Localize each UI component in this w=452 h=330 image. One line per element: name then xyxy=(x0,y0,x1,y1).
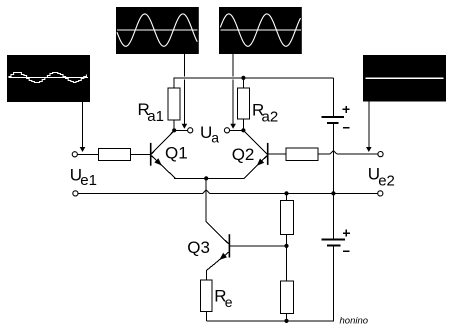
resistor R3 (divider top) xyxy=(281,201,294,235)
label Ra2 xyxy=(252,101,278,126)
label Ue1 xyxy=(70,165,97,189)
plus sign of battery B2 xyxy=(343,230,350,237)
probe wire P4 from scope S4 with arrow to Ue2 output wire xyxy=(366,102,372,153)
wire: Ra2 bottom to Ua right junction xyxy=(242,119,244,130)
label Ra1 xyxy=(138,100,164,125)
resistor Re xyxy=(200,280,212,312)
wire: bottom reference from Ue1 with hop over emitter line xyxy=(78,190,378,194)
terminal circle Ue1 bottom xyxy=(73,191,78,196)
svg-text:e1: e1 xyxy=(80,172,97,189)
transistor Q3 xyxy=(207,234,231,270)
svg-text:e: e xyxy=(225,294,233,310)
resistor Ra1 xyxy=(168,88,180,120)
wire: emitter rail joining Q1 and Q2 emitters xyxy=(174,177,244,179)
plus sign of battery B1 xyxy=(343,106,350,113)
terminal circle Ue1 top xyxy=(72,152,77,157)
svg-text:a1: a1 xyxy=(147,108,164,125)
probe wire P2 from scope S2 with arrow to Ua left node (gap at rail crossing) xyxy=(182,54,188,129)
svg-text:Q3: Q3 xyxy=(187,238,210,257)
node Ua right: junction dot, wire and open terminal xyxy=(224,128,245,133)
terminal circle Ue2 bottom xyxy=(378,191,383,196)
wire: emitter rail down to Q3 collector xyxy=(206,178,229,244)
wire: battery line from reference dot down to battery B2 xyxy=(332,193,334,238)
wire: R2 to Ue2 terminal with hop over battery line xyxy=(318,151,378,154)
svg-text:Q1: Q1 xyxy=(165,144,188,163)
wire: Q3 emitter down to Re xyxy=(205,270,207,280)
scope display S4: flat output line at Ue2 xyxy=(363,55,446,102)
scope display S3: amplified sine (opposite phase) at right collector xyxy=(219,7,302,54)
wire: Ue1 terminal to R1 xyxy=(78,153,99,155)
label Ua xyxy=(200,123,219,146)
scope display S2: amplified sine at left collector xyxy=(116,7,199,54)
svg-text:e2: e2 xyxy=(378,172,395,189)
terminal circle Ue2 top xyxy=(378,152,383,157)
wire: between divider resistors xyxy=(286,235,288,282)
probe wire P1 from scope S1 with arrow to Ue1 input wire xyxy=(80,102,86,152)
junction dot: reference wire to divider top xyxy=(284,191,288,195)
label Ue2 xyxy=(368,165,395,190)
wire: R1 to Q1 base xyxy=(130,153,150,155)
wire: reference wire down to divider resistor R3 xyxy=(286,193,288,200)
svg-text:Q2: Q2 xyxy=(232,145,255,164)
resistor R1 (left base resistor) xyxy=(99,148,131,160)
wire: R4 bottom to negative rail xyxy=(286,314,288,321)
wire: negative rail at bottom xyxy=(206,320,334,322)
svg-text:a: a xyxy=(211,130,219,146)
svg-text:a2: a2 xyxy=(262,109,279,126)
junction dot at divider midpoint (Q3 base) xyxy=(284,244,288,248)
junction dot on rail above Ra2 xyxy=(241,76,245,80)
junction dot on emitter rail xyxy=(204,176,208,180)
wire: Ra1 bottom to Ua left junction xyxy=(173,120,175,130)
scope display S1: input signal (small noisy sine) xyxy=(7,55,90,102)
label Re xyxy=(214,286,233,310)
svg-text:honino: honino xyxy=(340,316,369,327)
node Ua left: junction dot, wire and open terminal xyxy=(172,128,193,133)
battery B1 (upper supply) xyxy=(322,78,344,193)
junction dot: negative rail to R4 xyxy=(284,319,288,323)
minus sign of battery B1 xyxy=(343,127,350,129)
resistor R2 (right base resistor) xyxy=(286,148,318,160)
wire: positive supply rail xyxy=(174,78,334,88)
transistor Q2 xyxy=(243,131,268,179)
wire: Q2 base to R2 xyxy=(269,153,287,155)
probe wire P3 from scope S3 with arrow to Ua right node (gap at rail crossing) xyxy=(230,54,236,129)
resistor R4 (divider bottom) xyxy=(281,281,294,314)
battery B2 (lower supply) xyxy=(322,240,346,321)
wire: Re bottom to negative rail xyxy=(205,311,207,321)
minus sign of battery B2 xyxy=(343,250,350,252)
transistor Q1 xyxy=(150,131,176,179)
junction dot: reference wire to battery line xyxy=(331,191,335,195)
resistor Ra2 xyxy=(238,88,250,119)
wire: rail to Ra2 top xyxy=(242,78,244,88)
wire: Q3 base to divider midpoint xyxy=(230,245,286,247)
